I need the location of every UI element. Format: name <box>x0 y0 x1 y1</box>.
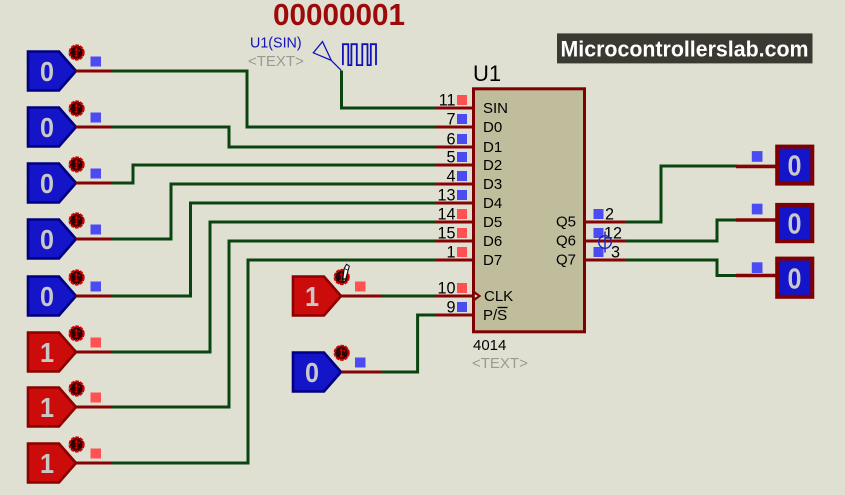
svg-text:10: 10 <box>437 280 455 298</box>
wire tag D6 to pin 15 <box>112 241 436 407</box>
svg-text:6: 6 <box>446 131 455 149</box>
logic input tag D0 value 0 <box>28 46 112 91</box>
pin 1 D7 <box>436 244 502 270</box>
logic input tag D6 value 1 <box>28 382 112 427</box>
svg-text:0: 0 <box>40 224 54 255</box>
svg-text:<TEXT>: <TEXT> <box>472 355 528 372</box>
pin 14 D5 <box>436 206 502 232</box>
wire pin 3 Q7 to probe 3 <box>626 260 738 276</box>
svg-text:0: 0 <box>40 281 54 312</box>
wire tag D2 to pin 5 <box>112 165 436 183</box>
logic probe Q7 value 0 <box>736 259 812 297</box>
clock generator symbol <box>313 42 376 71</box>
logic input tag D3 value 0 <box>28 214 112 259</box>
origin marker at pin Q6 <box>599 232 612 253</box>
wire tag D7 to pin 1 <box>112 260 436 463</box>
svg-text:0: 0 <box>40 112 54 143</box>
svg-text:5: 5 <box>446 149 455 167</box>
logic input tag D5 value 1 <box>28 327 112 372</box>
svg-text:0: 0 <box>40 56 54 87</box>
svg-text:D6: D6 <box>483 233 502 250</box>
svg-text:U1: U1 <box>473 61 501 86</box>
pin 7 D0 <box>436 111 502 137</box>
svg-text:D5: D5 <box>483 214 502 231</box>
svg-text:Microcontrollerslab.com: Microcontrollerslab.com <box>561 37 809 62</box>
svg-text:Q7: Q7 <box>556 252 576 269</box>
svg-text:D0: D0 <box>483 119 502 136</box>
svg-text:1: 1 <box>305 281 319 312</box>
svg-text:1: 1 <box>40 337 54 368</box>
wire clock generator to pin 11 SIN <box>342 71 437 109</box>
svg-text:14: 14 <box>437 206 455 224</box>
svg-text:D3: D3 <box>483 176 502 193</box>
svg-text:4: 4 <box>446 168 455 186</box>
pin 12 Q6 <box>556 225 626 250</box>
svg-text:SIN: SIN <box>483 100 508 117</box>
svg-text:7: 7 <box>446 111 455 129</box>
wire tag D4 to pin 13 <box>112 203 436 296</box>
logic input tag D7 value 1 <box>28 438 112 483</box>
svg-text:12: 12 <box>604 225 622 243</box>
svg-text:D2: D2 <box>483 157 502 174</box>
svg-text:3: 3 <box>611 244 620 262</box>
svg-text:13: 13 <box>437 187 455 205</box>
IC U1 4014 body <box>474 89 585 332</box>
svg-text:1: 1 <box>40 392 54 423</box>
svg-text:P/S: P/S <box>483 307 507 324</box>
svg-text:11: 11 <box>439 92 456 110</box>
svg-text:0: 0 <box>788 209 802 241</box>
wire tag D3 to pin 4 <box>112 184 436 239</box>
svg-text:9: 9 <box>446 299 455 317</box>
wire tag D1 to pin 6 <box>112 127 436 147</box>
logic input tag D2 value 0 <box>28 158 112 203</box>
svg-text:1: 1 <box>446 244 455 262</box>
pin 9 PS <box>436 299 508 325</box>
logic input tag CLK value 1 <box>293 270 381 316</box>
svg-text:CLK: CLK <box>484 288 513 305</box>
pin 15 D6 <box>436 225 502 251</box>
wire tag P/S to pin 9 <box>381 315 436 372</box>
wire tag D5 to pin 14 <box>112 222 436 352</box>
pin 11 SIN <box>436 92 508 118</box>
svg-text:15: 15 <box>437 225 455 243</box>
svg-text:0: 0 <box>40 168 54 199</box>
svg-text:Q5: Q5 <box>556 214 576 231</box>
pin 10 CLK <box>436 280 513 306</box>
mouse cursor <box>342 264 349 282</box>
svg-text:0: 0 <box>305 357 319 388</box>
pin 3 Q7 <box>556 244 626 269</box>
wire pin 2 Q5 to probe 1 <box>626 166 738 222</box>
svg-text:U1(SIN): U1(SIN) <box>250 36 302 52</box>
svg-text:2: 2 <box>605 206 614 224</box>
wire tag D0 to pin 7 <box>112 71 436 127</box>
svg-text:1: 1 <box>40 448 54 479</box>
svg-text:4014: 4014 <box>473 337 506 354</box>
pin 2 Q5 <box>556 206 626 231</box>
pin 13 D4 <box>436 187 502 213</box>
logic input tag P/S value 0 <box>293 346 381 392</box>
wire tag CLK to pin 10 <box>381 295 436 298</box>
logic probe Q6 value 0 <box>736 204 812 242</box>
logic probe Q5 value 0 <box>736 147 812 184</box>
pin 4 D3 <box>436 168 502 194</box>
svg-text:<TEXT>: <TEXT> <box>248 53 304 70</box>
wire pin 12 Q6 to probe 2 <box>626 220 740 241</box>
svg-text:00000001: 00000001 <box>273 0 405 32</box>
svg-text:D7: D7 <box>483 252 502 269</box>
svg-text:0: 0 <box>788 263 802 295</box>
svg-text:D1: D1 <box>483 139 502 156</box>
pin 6 D1 <box>436 131 502 157</box>
watermark Microcontrollerslab.com <box>557 33 813 63</box>
pin 5 D2 <box>436 149 502 175</box>
logic input tag D4 value 0 <box>28 271 112 316</box>
svg-text:Q6: Q6 <box>556 233 576 250</box>
logic input tag D1 value 0 <box>28 102 112 147</box>
svg-text:0: 0 <box>788 151 802 183</box>
svg-text:D4: D4 <box>483 195 502 212</box>
